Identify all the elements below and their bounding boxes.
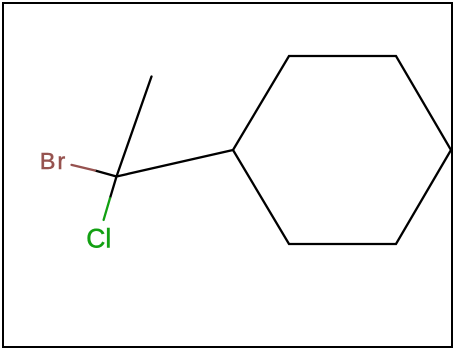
svg-text:Br: Br xyxy=(40,148,67,174)
svg-text:Cl: Cl xyxy=(86,223,111,253)
